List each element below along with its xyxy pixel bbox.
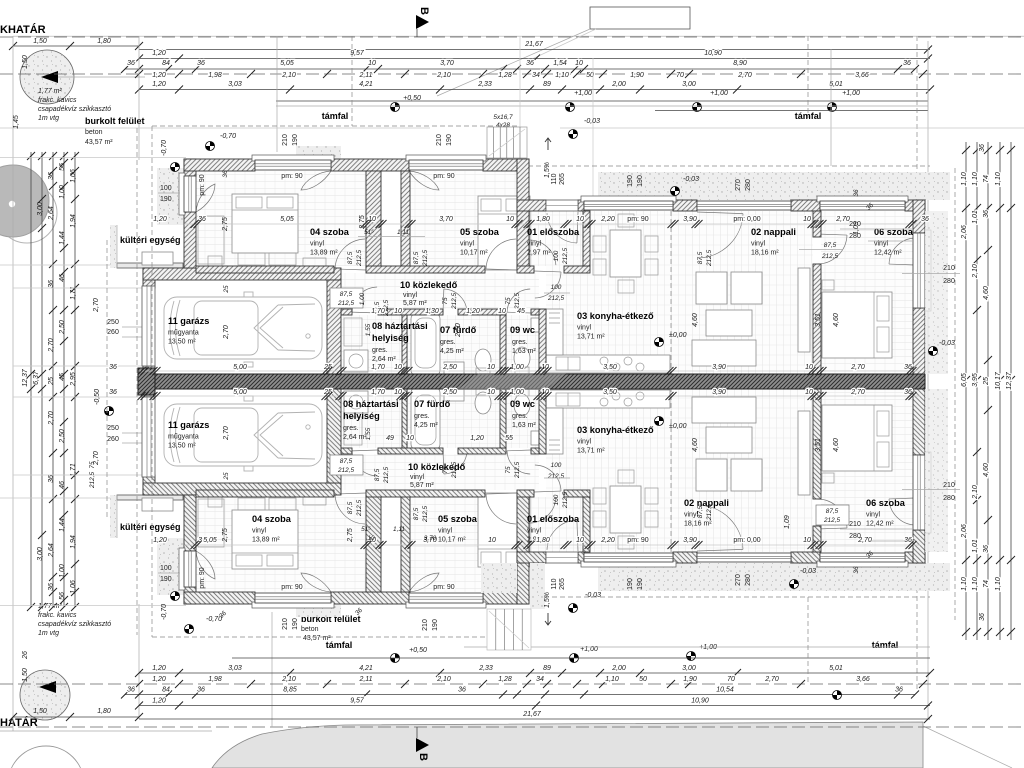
svg-text:87,5: 87,5 — [824, 242, 837, 249]
svg-text:36: 36 — [48, 280, 55, 288]
svg-text:36: 36 — [109, 389, 117, 396]
svg-text:4,60: 4,60 — [833, 313, 840, 327]
right dim ticks — [962, 146, 970, 154]
svg-text:10: 10 — [803, 216, 811, 223]
svg-text:1,10: 1,10 — [995, 577, 1002, 591]
svg-text:89: 89 — [543, 665, 551, 672]
svg-text:13,71 m²: 13,71 m² — [577, 448, 605, 455]
sink 09 — [531, 318, 539, 332]
left dim chain lines — [30, 152, 32, 607]
svg-text:1,06: 1,06 — [70, 169, 77, 183]
svg-text:B: B — [418, 7, 430, 15]
svg-text:2,00: 2,00 — [611, 81, 626, 88]
svg-text:46: 46 — [59, 481, 66, 489]
svg-text:3,50: 3,50 — [603, 364, 617, 371]
top dim row 1 — [13, 45, 139, 47]
svg-text:-0,03: -0,03 — [584, 118, 600, 125]
right dim chain lines — [965, 142, 967, 640]
svg-text:06 szoba: 06 szoba — [874, 227, 914, 237]
svg-text:vinyl: vinyl — [527, 241, 541, 248]
svg-text:45: 45 — [517, 308, 525, 315]
svg-text:190: 190 — [627, 175, 634, 187]
svg-text:1,01: 1,01 — [972, 210, 979, 224]
svg-text:10: 10 — [805, 364, 813, 371]
svg-text:212,5: 212,5 — [706, 504, 713, 521]
svg-text:100: 100 — [553, 250, 560, 261]
svg-text:36: 36 — [458, 687, 466, 694]
bottom dim row 4 dashed — [0, 683, 1024, 685]
svg-text:pm: 90: pm: 90 — [627, 216, 649, 223]
svg-text:1m vtg: 1m vtg — [38, 115, 59, 122]
svg-text:2,10: 2,10 — [972, 264, 979, 279]
svg-text:87,5: 87,5 — [374, 468, 381, 481]
svg-text:55: 55 — [505, 435, 513, 442]
svg-text:helyiség: helyiség — [343, 411, 380, 421]
property boundary top dashed — [0, 36, 1024, 38]
svg-text:10: 10 — [394, 364, 402, 371]
right stipple strip — [925, 211, 948, 374]
AC niche — [117, 225, 183, 266]
svg-text:06 szoba: 06 szoba — [866, 498, 906, 508]
svg-text:-0,70: -0,70 — [161, 604, 168, 620]
svg-text:36: 36 — [197, 60, 205, 67]
svg-text:36: 36 — [526, 60, 534, 67]
svg-text:01 előszoba: 01 előszoba — [527, 227, 580, 237]
svg-text:+1,00: +1,00 — [574, 90, 592, 97]
svg-text:frakc. kavics: frakc. kavics — [38, 97, 77, 104]
svg-text:+1,00: +1,00 — [699, 644, 717, 651]
svg-text:43,57 m²: 43,57 m² — [85, 139, 113, 146]
svg-text:212,5: 212,5 — [451, 293, 458, 310]
svg-text:4,25 m²: 4,25 m² — [440, 348, 464, 355]
svg-text:100: 100 — [551, 462, 562, 469]
svg-text:13,89 m²: 13,89 m² — [252, 537, 280, 544]
svg-text:25: 25 — [223, 472, 230, 481]
svg-text:05 szoba: 05 szoba — [460, 227, 500, 237]
svg-text:3,90: 3,90 — [712, 389, 726, 396]
bottom dim row 3 — [125, 694, 915, 696]
svg-text:gres.: gres. — [440, 339, 456, 346]
svg-text:1,20: 1,20 — [152, 50, 166, 57]
svg-text:2,50: 2,50 — [59, 429, 66, 444]
svg-text:1,28: 1,28 — [498, 676, 512, 683]
svg-text:87,5: 87,5 — [347, 501, 354, 514]
svg-text:87,5: 87,5 — [340, 291, 353, 298]
wall living top — [517, 200, 546, 211]
svg-text:25: 25 — [48, 377, 55, 386]
svg-text:212,5: 212,5 — [337, 300, 354, 307]
svg-text:45: 45 — [59, 373, 66, 381]
svg-text:4,21: 4,21 — [359, 665, 373, 672]
wall bedroom left — [184, 159, 196, 176]
svg-text:110: 110 — [551, 578, 558, 589]
svg-text:04 szoba: 04 szoba — [310, 227, 350, 237]
svg-text:8,85: 8,85 — [283, 687, 297, 694]
svg-text:100: 100 — [160, 185, 172, 192]
svg-text:56: 56 — [59, 592, 66, 600]
svg-text:1,80: 1,80 — [97, 38, 111, 45]
svg-text:9,57: 9,57 — [350, 50, 365, 57]
svg-text:1,00: 1,00 — [59, 564, 66, 578]
toilet 07 — [475, 349, 491, 371]
svg-text:1,01: 1,01 — [972, 539, 979, 553]
svg-text:280: 280 — [745, 179, 752, 191]
svg-text:25: 25 — [223, 285, 230, 294]
svg-text:3,00: 3,00 — [37, 547, 44, 561]
svg-text:1,44: 1,44 — [59, 518, 66, 532]
soakaway circle bottom-left — [20, 670, 70, 720]
svg-text:támfal: támfal — [872, 640, 899, 650]
svg-text:3,03: 3,03 — [228, 665, 242, 672]
svg-text:1,80: 1,80 — [97, 708, 111, 715]
svg-text:46: 46 — [59, 274, 66, 282]
door arcs — [547, 213, 577, 243]
svg-text:36: 36 — [983, 210, 990, 218]
svg-text:1,20: 1,20 — [153, 216, 167, 223]
svg-text:04 szoba: 04 szoba — [252, 514, 292, 524]
svg-text:25: 25 — [983, 377, 990, 386]
svg-text:10: 10 — [576, 216, 584, 223]
kitchen nappali dashed divider — [670, 211, 672, 374]
svg-text:5,05: 5,05 — [203, 537, 217, 544]
svg-text:212,5: 212,5 — [514, 462, 521, 479]
svg-text:2,06: 2,06 — [961, 524, 968, 539]
svg-text:-0,70: -0,70 — [220, 133, 236, 140]
svg-text:pm: 90: pm: 90 — [281, 584, 303, 591]
wall garage right — [327, 280, 341, 374]
svg-text:2,70: 2,70 — [835, 216, 850, 223]
svg-text:08 háztartási: 08 háztartási — [343, 399, 399, 409]
svg-text:75: 75 — [505, 466, 512, 474]
svg-text:08 háztartási: 08 háztartási — [372, 321, 428, 331]
svg-text:9,57: 9,57 — [350, 698, 365, 705]
svg-text:1,20: 1,20 — [470, 435, 484, 442]
svg-text:2,70: 2,70 — [850, 364, 865, 371]
svg-text:51⁵: 51⁵ — [364, 229, 374, 236]
svg-text:5,05: 5,05 — [280, 216, 294, 223]
svg-text:±0,00: ±0,00 — [669, 423, 687, 430]
terrace door top — [697, 201, 791, 210]
svg-text:pm: 90: pm: 90 — [281, 173, 303, 180]
svg-text:36: 36 — [222, 170, 229, 178]
svg-text:210: 210 — [422, 619, 429, 631]
door size boxes 87,5 bottom — [330, 455, 363, 475]
svg-text:1,10: 1,10 — [972, 577, 979, 591]
svg-text:1,98: 1,98 — [208, 676, 222, 683]
svg-text:2,70: 2,70 — [48, 338, 55, 353]
svg-text:1,20: 1,20 — [153, 537, 167, 544]
svg-text:212,5: 212,5 — [547, 295, 564, 302]
svg-text:3,90: 3,90 — [712, 364, 726, 371]
svg-text:190: 190 — [160, 196, 172, 203]
furniture bed 06 — [822, 292, 892, 358]
left dim ticks — [27, 152, 35, 160]
wall step entry — [517, 159, 529, 268]
svg-text:1,10: 1,10 — [961, 577, 968, 591]
eaves dashed outline bottom — [152, 636, 517, 638]
svg-text:87,5: 87,5 — [347, 251, 354, 264]
svg-text:36: 36 — [904, 537, 912, 544]
top dim row 3 — [125, 68, 915, 70]
svg-text:190: 190 — [160, 576, 172, 583]
retaining wall lines top — [276, 100, 928, 102]
svg-text:vinyl: vinyl — [310, 241, 324, 248]
marker bottom right — [833, 691, 842, 700]
vertical reference lines top — [138, 36, 140, 160]
svg-text:1,90: 1,90 — [683, 676, 697, 683]
svg-text:51⁵: 51⁵ — [361, 526, 371, 533]
svg-text:10,17: 10,17 — [995, 371, 1002, 390]
section marker B bottom — [416, 738, 429, 752]
svg-text:1,54: 1,54 — [553, 60, 567, 67]
svg-text:1,45: 1,45 — [13, 115, 20, 129]
svg-text:87,5: 87,5 — [340, 458, 353, 465]
svg-text:beton: beton — [85, 129, 103, 136]
svg-text:56: 56 — [59, 163, 66, 171]
window 05 top — [406, 155, 486, 161]
svg-text:36: 36 — [895, 687, 903, 694]
svg-text:kültéri egység: kültéri egység — [120, 522, 181, 532]
svg-text:2,75: 2,75 — [222, 528, 229, 543]
svg-text:csapadékvíz szikkasztó: csapadékvíz szikkasztó — [38, 106, 111, 113]
svg-text:2,75: 2,75 — [359, 215, 366, 230]
svg-text:kültéri egység: kültéri egység — [120, 235, 181, 245]
svg-text:36: 36 — [197, 687, 205, 694]
wall bedroom top — [184, 159, 255, 171]
svg-text:5,00: 5,00 — [233, 389, 247, 396]
leader from box — [437, 29, 590, 96]
svg-text:74: 74 — [983, 175, 990, 183]
sofa set nappali — [696, 272, 727, 304]
front door opening — [546, 200, 578, 211]
svg-text:1,98: 1,98 — [208, 72, 222, 79]
partition nappali-06 — [813, 264, 821, 374]
svg-text:190: 190 — [637, 175, 644, 187]
bathtub 07 — [411, 313, 440, 376]
svg-text:pm: 0,00: pm: 0,00 — [733, 216, 760, 223]
party wall — [138, 374, 925, 389]
kitchen counter — [546, 355, 670, 373]
svg-text:1,55: 1,55 — [365, 427, 372, 440]
svg-text:-0,70: -0,70 — [206, 616, 222, 623]
svg-text:1,90: 1,90 — [630, 72, 644, 79]
right dashed line — [954, 168, 956, 620]
retaining wall lines bottom — [464, 646, 930, 648]
svg-text:34: 34 — [536, 676, 544, 683]
svg-text:1,80: 1,80 — [536, 216, 550, 223]
svg-text:1,09: 1,09 — [784, 515, 791, 529]
svg-text:49: 49 — [386, 435, 394, 442]
svg-text:280: 280 — [943, 495, 955, 502]
top dim row 5 — [139, 89, 930, 91]
svg-text:36: 36 — [853, 189, 860, 197]
partition wc-kitchen — [539, 309, 546, 374]
svg-text:10: 10 — [487, 364, 495, 371]
svg-text:26: 26 — [22, 651, 29, 660]
svg-text:1,11: 1,11 — [393, 526, 405, 533]
svg-text:10: 10 — [394, 389, 402, 396]
svg-text:212,5: 212,5 — [422, 506, 429, 523]
soakaway circle top-left — [20, 50, 74, 104]
svg-text:B: B — [417, 753, 429, 761]
svg-text:3,66: 3,66 — [856, 676, 870, 683]
svg-text:270: 270 — [735, 574, 742, 586]
svg-text:250: 250 — [107, 425, 119, 432]
svg-text:5,01: 5,01 — [829, 665, 843, 672]
svg-text:11 garázs: 11 garázs — [168, 420, 209, 430]
partition 04-05 — [366, 171, 381, 268]
svg-text:gres.: gres. — [372, 347, 388, 354]
svg-text:210: 210 — [943, 482, 955, 489]
svg-text:1,50: 1,50 — [22, 55, 29, 69]
garage door — [142, 286, 155, 366]
svg-text:3,70: 3,70 — [424, 535, 437, 542]
svg-text:-0,03: -0,03 — [683, 176, 699, 183]
svg-text:2,95: 2,95 — [70, 372, 77, 387]
svg-text:50: 50 — [639, 676, 647, 683]
svg-text:34: 34 — [532, 72, 540, 79]
svg-text:2,64 m²: 2,64 m² — [372, 356, 396, 363]
svg-text:270: 270 — [735, 179, 742, 191]
svg-text:13,50 m²: 13,50 m² — [168, 443, 196, 450]
svg-text:265: 265 — [559, 578, 566, 590]
party wall chains bottom — [140, 395, 920, 397]
svg-text:21,67: 21,67 — [522, 711, 542, 718]
svg-text:100: 100 — [551, 284, 562, 291]
svg-text:280: 280 — [849, 233, 861, 240]
svg-text:87,5: 87,5 — [413, 251, 420, 264]
svg-text:pm: 0,00: pm: 0,00 — [733, 537, 760, 544]
svg-text:6,37: 6,37 — [33, 370, 40, 385]
level markers inside top — [206, 142, 215, 151]
svg-text:4,60: 4,60 — [983, 463, 990, 477]
svg-text:210: 210 — [849, 221, 861, 228]
svg-text:10,90: 10,90 — [691, 698, 709, 705]
svg-text:4,60: 4,60 — [692, 438, 699, 452]
svg-text:2,10: 2,10 — [281, 72, 296, 79]
svg-text:2,11: 2,11 — [358, 72, 372, 79]
bottom dim row 1 — [13, 716, 139, 718]
svg-text:12,42 m²: 12,42 m² — [866, 521, 894, 528]
interior chain bottom unit — [184, 544, 920, 546]
tree circle left — [0, 183, 57, 243]
svg-text:75: 75 — [442, 297, 449, 305]
svg-text:212,5: 212,5 — [821, 253, 838, 260]
svg-text:25: 25 — [323, 389, 332, 396]
svg-text:1,00: 1,00 — [510, 364, 524, 371]
wall right — [913, 200, 925, 233]
svg-text:84: 84 — [162, 687, 170, 694]
svg-text:3,51: 3,51 — [815, 313, 822, 327]
svg-text:1,20: 1,20 — [152, 72, 166, 79]
svg-text:280: 280 — [849, 533, 861, 540]
washer 08 — [344, 350, 368, 372]
driveway lines — [13, 287, 143, 289]
left paved stipple — [157, 168, 184, 225]
svg-text:1,10: 1,10 — [605, 676, 619, 683]
svg-text:-0,03: -0,03 — [800, 568, 816, 575]
svg-text:4,60: 4,60 — [692, 313, 699, 327]
svg-text:1,20: 1,20 — [466, 308, 480, 315]
section marker B top — [416, 15, 429, 29]
svg-text:gres.: gres. — [343, 425, 359, 432]
svg-text:vinyl: vinyl — [751, 241, 765, 248]
svg-text:10: 10 — [803, 537, 811, 544]
svg-text:HATÁR: HATÁR — [0, 716, 38, 729]
svg-text:vinyl: vinyl — [438, 528, 452, 535]
svg-text:212,5: 212,5 — [823, 517, 840, 524]
partition shaft — [401, 171, 410, 268]
svg-text:212,5: 212,5 — [706, 250, 713, 267]
svg-text:frakc. kavics: frakc. kavics — [38, 612, 77, 619]
svg-text:2,50: 2,50 — [455, 323, 462, 338]
svg-text:1,94: 1,94 — [70, 535, 77, 549]
bottom dim row 5 — [139, 672, 930, 674]
svg-text:210: 210 — [436, 134, 443, 146]
top dim row 4 on boundary — [0, 73, 1024, 75]
svg-text:vinyl: vinyl — [410, 474, 424, 481]
svg-text:4,60: 4,60 — [983, 286, 990, 300]
svg-text:-0,03: -0,03 — [585, 592, 601, 599]
svg-text:1,55: 1,55 — [365, 323, 372, 336]
svg-text:1,5%: 1,5% — [544, 162, 551, 178]
window bedroom left wall — [179, 173, 185, 215]
svg-text:75: 75 — [505, 297, 512, 305]
svg-text:beton: beton — [301, 626, 319, 633]
svg-text:1,50: 1,50 — [33, 38, 47, 45]
svg-text:2,97 m²: 2,97 m² — [527, 250, 551, 257]
svg-text:74: 74 — [983, 580, 990, 588]
svg-text:2,64: 2,64 — [48, 543, 55, 558]
svg-text:5,87 m²: 5,87 m² — [403, 300, 427, 307]
svg-text:03 konyha-étkező: 03 konyha-étkező — [577, 311, 654, 321]
svg-text:1,00: 1,00 — [359, 292, 366, 305]
svg-text:2,70: 2,70 — [223, 325, 230, 340]
svg-text:gres.: gres. — [512, 413, 528, 420]
sink 07 — [444, 362, 464, 375]
svg-text:70: 70 — [727, 676, 735, 683]
svg-text:212,5: 212,5 — [89, 472, 96, 489]
svg-text:pm: 90: pm: 90 — [199, 567, 206, 589]
svg-text:1,20: 1,20 — [152, 698, 166, 705]
svg-text:2,33: 2,33 — [478, 665, 493, 672]
svg-text:3,00: 3,00 — [682, 81, 696, 88]
svg-text:vinyl: vinyl — [577, 325, 591, 332]
svg-text:pm: 90: pm: 90 — [433, 584, 455, 591]
svg-text:1,28: 1,28 — [498, 72, 512, 79]
party wall chains top — [140, 370, 920, 372]
svg-text:3,95: 3,95 — [972, 373, 979, 387]
svg-text:+0,50: +0,50 — [409, 647, 427, 654]
svg-text:260: 260 — [107, 329, 119, 336]
svg-text:87,5: 87,5 — [413, 507, 420, 520]
svg-text:1,20: 1,20 — [152, 676, 166, 683]
svg-text:212,5: 212,5 — [562, 492, 569, 509]
svg-text:09 wc: 09 wc — [510, 399, 535, 409]
svg-text:12,37: 12,37 — [1006, 371, 1013, 390]
svg-text:3,70: 3,70 — [440, 60, 454, 67]
stairs bottom — [487, 609, 531, 650]
svg-text:+1,00: +1,00 — [842, 90, 860, 97]
svg-text:1,00: 1,00 — [510, 389, 524, 396]
svg-text:vinyl: vinyl — [527, 528, 541, 535]
svg-text:212,5: 212,5 — [356, 500, 363, 517]
interior chain top unit — [184, 223, 920, 225]
faint wall face line top-left — [0, 157, 186, 159]
svg-text:89: 89 — [543, 81, 551, 88]
left niche guide lines — [0, 264, 117, 266]
svg-text:212,5: 212,5 — [356, 250, 363, 267]
